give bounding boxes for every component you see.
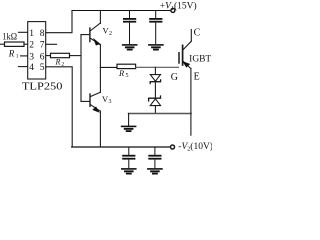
svg-text:7: 7 xyxy=(40,41,45,51)
svg-text:R: R xyxy=(118,68,125,78)
svg-text:TLP250: TLP250 xyxy=(22,80,63,92)
svg-text:5: 5 xyxy=(126,73,129,79)
svg-text:2: 2 xyxy=(29,41,34,51)
svg-text:5: 5 xyxy=(40,63,45,73)
svg-text:1: 1 xyxy=(29,29,34,39)
svg-text:R: R xyxy=(8,49,15,59)
svg-text:R: R xyxy=(55,58,61,67)
svg-text:+V1(15V): +V1(15V) xyxy=(160,0,197,12)
svg-text:3: 3 xyxy=(109,99,112,105)
svg-text:3: 3 xyxy=(29,52,34,62)
svg-text:8: 8 xyxy=(40,29,45,39)
svg-text:E: E xyxy=(194,72,200,83)
svg-text:C: C xyxy=(194,27,201,38)
svg-text:G: G xyxy=(171,72,178,83)
svg-text:-V2(10V): -V2(10V) xyxy=(178,141,212,153)
svg-text:2: 2 xyxy=(109,31,112,37)
svg-text:1: 1 xyxy=(16,54,19,60)
svg-text:2: 2 xyxy=(62,62,65,68)
svg-text:4: 4 xyxy=(29,63,34,73)
svg-text:6: 6 xyxy=(40,52,45,62)
svg-text:1kΩ: 1kΩ xyxy=(2,33,17,43)
svg-text:IGBT: IGBT xyxy=(189,54,212,64)
